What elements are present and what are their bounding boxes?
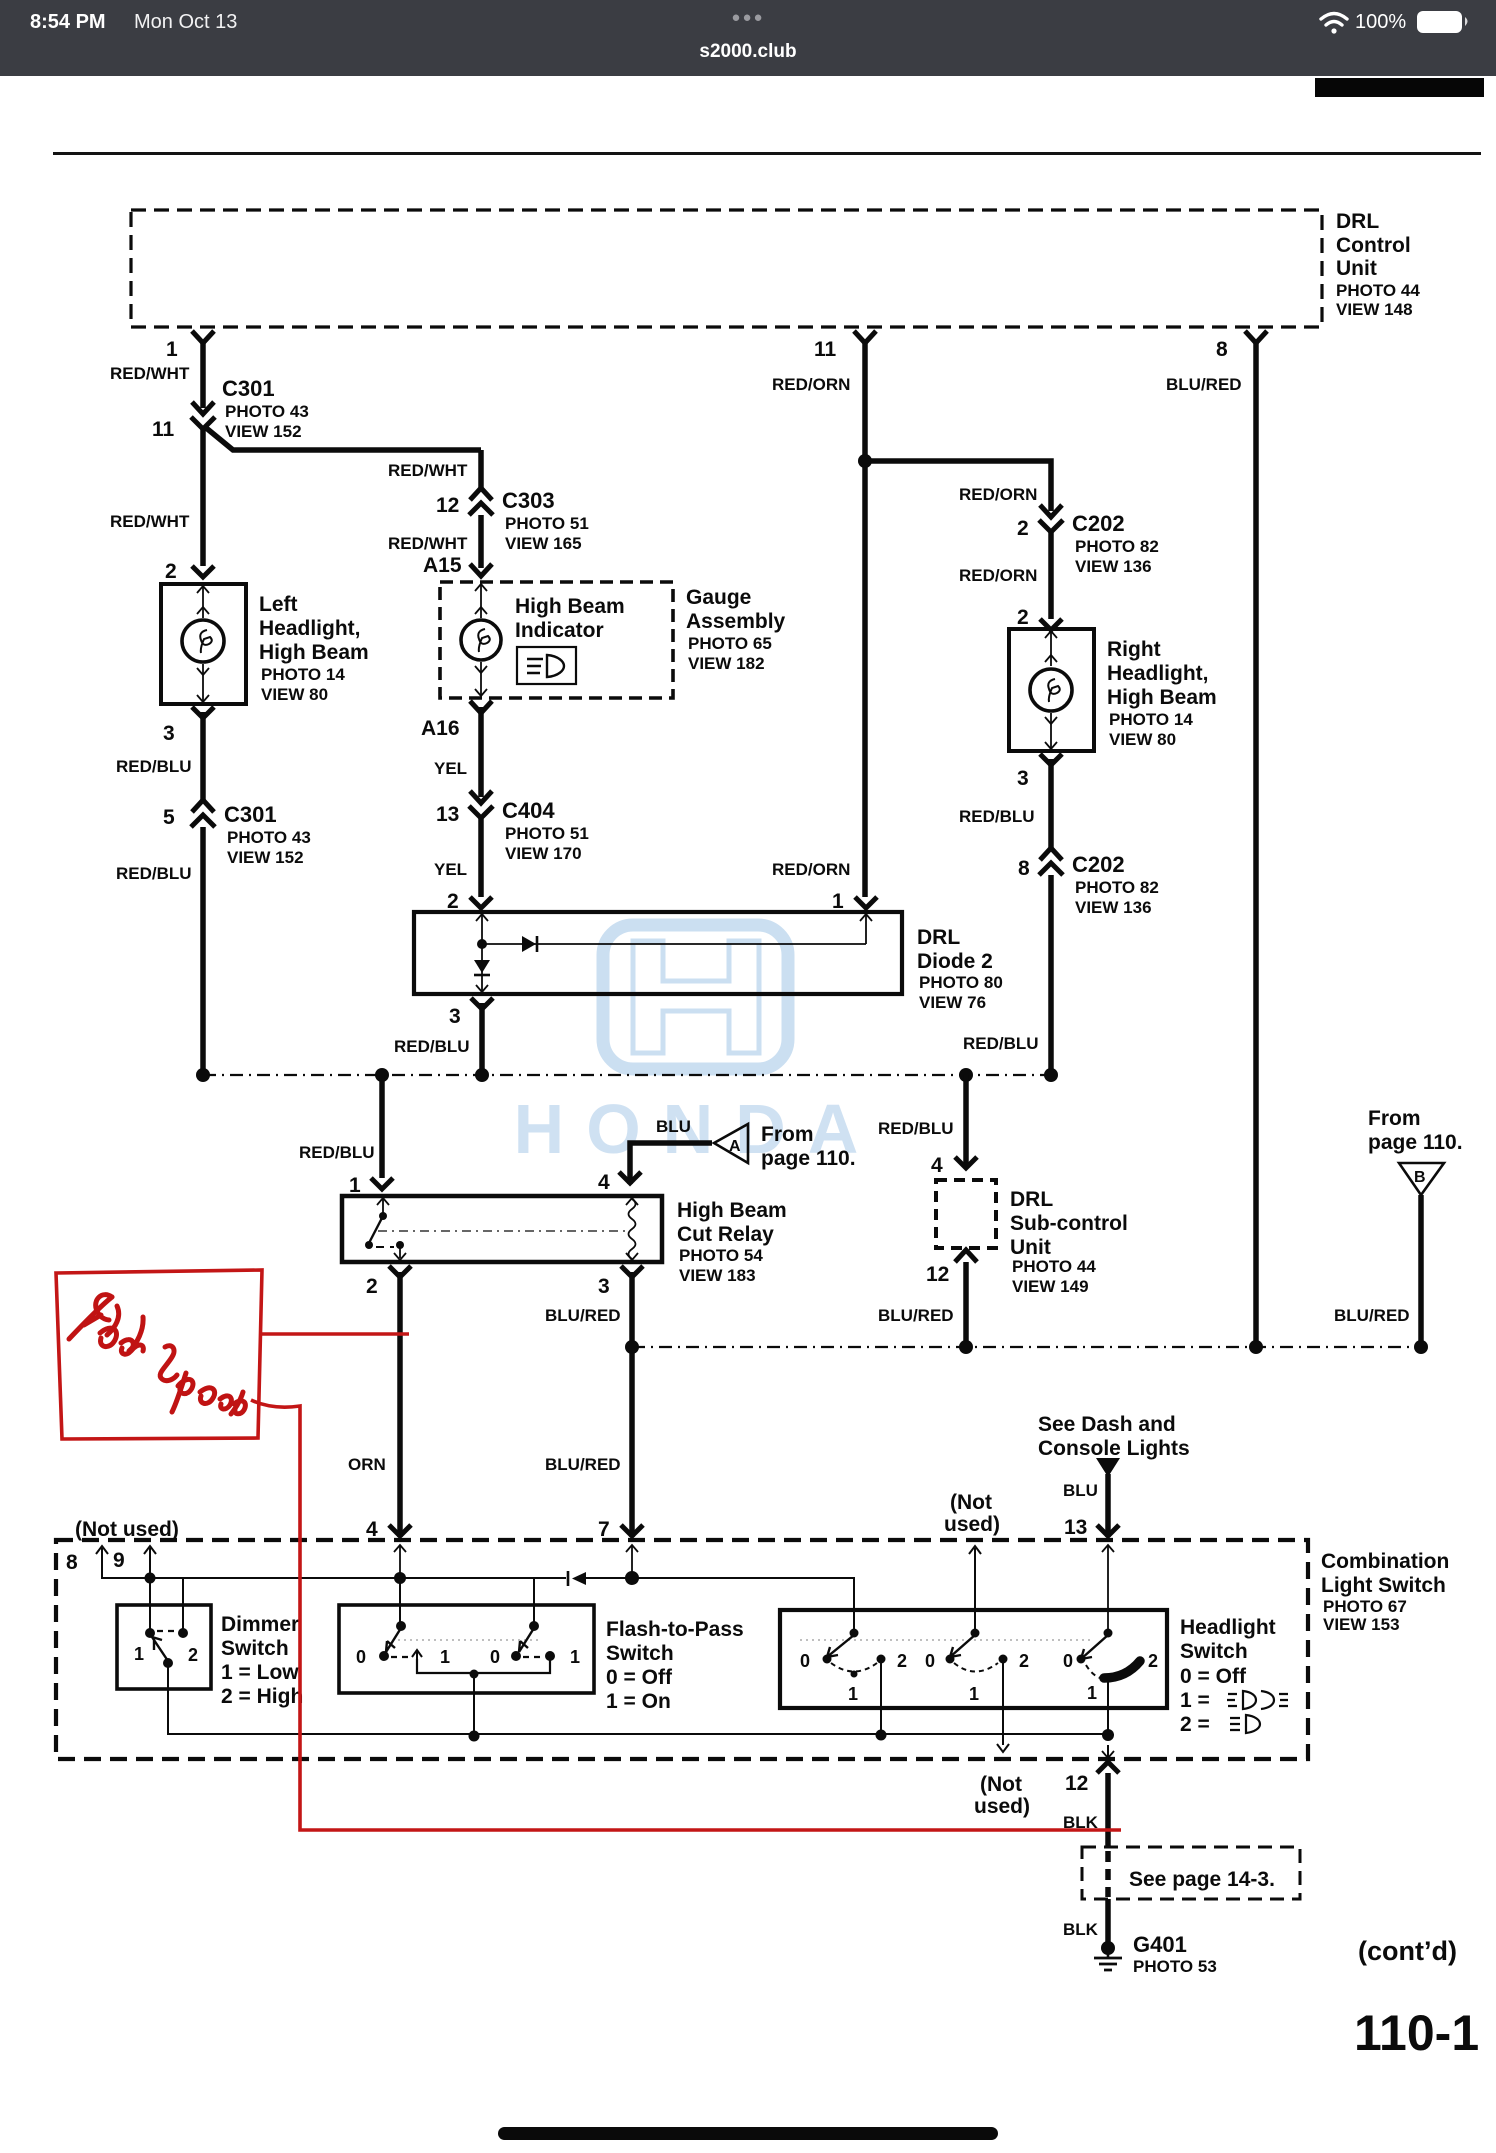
pin A16 of gauge assembly (421, 701, 492, 740)
wire RED/BLU bus to DRL sub-control pin 4 (878, 1075, 977, 1177)
headlight switch (780, 1610, 1276, 1752)
wire RED/WHT C303 to gauge assembly A15 (388, 515, 492, 577)
connector C301 pin 5 (163, 800, 311, 867)
internal wire upper rail (150, 1578, 854, 1633)
svg-text:PHOTO 44: PHOTO 44 (1336, 281, 1420, 300)
svg-text:VIEW 149: VIEW 149 (1012, 1277, 1089, 1296)
svg-text:High Beam: High Beam (515, 595, 625, 618)
svg-text:2: 2 (1019, 1651, 1029, 1671)
see dash and console lights feed (1038, 1413, 1190, 1539)
wire RED/BLU C301-5 down to bus (116, 827, 203, 1075)
junction node inside diode box (477, 939, 487, 949)
svg-text:RED/BLU: RED/BLU (299, 1143, 375, 1162)
svg-text:0 = Off: 0 = Off (606, 1666, 673, 1689)
wire BLU/RED relay pin3 to combination switch pin 7 (545, 1272, 632, 1537)
wifi icon (1321, 14, 1347, 34)
svg-text:PHOTO 14: PHOTO 14 (261, 665, 345, 684)
svg-text:BLU/RED: BLU/RED (545, 1455, 621, 1474)
svg-text:(Not: (Not (950, 1491, 992, 1514)
svg-text:12: 12 (1065, 1772, 1088, 1795)
svg-text:BLU/RED: BLU/RED (545, 1306, 621, 1325)
red handwriting flash to pass (69, 1295, 245, 1414)
pin 7 of combination switch (598, 1518, 643, 1578)
svg-text:●●●: ●●● (731, 9, 764, 26)
wire BLU/RED subcontrol pin12 to bus (878, 1262, 966, 1347)
svg-text:1: 1 (349, 1174, 361, 1197)
svg-text:C303: C303 (502, 488, 555, 513)
svg-text:12: 12 (926, 1263, 949, 1286)
page top rule (53, 152, 1481, 155)
svg-text:BLK: BLK (1063, 1920, 1099, 1939)
svg-text:8:54 PM: 8:54 PM (30, 11, 106, 33)
svg-text:Left: Left (259, 593, 298, 616)
svg-text:Combination: Combination (1321, 1550, 1449, 1573)
connector C202 pin 2 (1017, 505, 1159, 576)
svg-text:RED/ORN: RED/ORN (959, 566, 1037, 585)
svg-text:BLU/RED: BLU/RED (1334, 1306, 1410, 1325)
svg-text:3: 3 (1017, 767, 1029, 790)
svg-text:PHOTO 80: PHOTO 80 (919, 973, 1003, 992)
wire RED/ORN C202 to right headlight (959, 532, 1062, 630)
high beam cut relay (342, 1196, 787, 1285)
svg-text:0: 0 (925, 1651, 935, 1671)
svg-text:s2000.club: s2000.club (699, 41, 796, 62)
svg-text:3: 3 (598, 1275, 610, 1298)
svg-text:C301: C301 (222, 376, 275, 401)
wire RED/WHT pin1 to C301 (110, 343, 203, 408)
combination light switch box (56, 1540, 1449, 1759)
node rail pin8-9 (145, 1573, 156, 1584)
pins 8 and 9 arrows (66, 1546, 156, 1578)
svg-text:4: 4 (598, 1171, 610, 1194)
svg-text:8: 8 (1216, 338, 1228, 361)
connector triangle B from page 110 (1368, 1107, 1463, 1195)
svg-text:VIEW 153: VIEW 153 (1323, 1615, 1400, 1634)
svg-text:A16: A16 (421, 717, 460, 740)
wire RED/ORN into diode pin 1 (772, 860, 877, 913)
svg-text:VIEW 152: VIEW 152 (227, 848, 304, 867)
svg-text:2: 2 (447, 890, 459, 913)
svg-text:PHOTO 54: PHOTO 54 (679, 1246, 763, 1265)
flash-to-pass switch (339, 1605, 744, 1734)
svg-text:VIEW 80: VIEW 80 (1109, 730, 1176, 749)
svg-text:4: 4 (366, 1518, 378, 1541)
wire RED/BLU pin3 to C202-8 (959, 759, 1051, 848)
node bus subcontrol branch (959, 1068, 973, 1082)
diode in rail pointing left (568, 1571, 586, 1586)
wire branch from C301-11 to C303 column (205, 427, 481, 450)
svg-text:(cont’d): (cont’d) (1358, 1936, 1457, 1966)
svg-text:PHOTO 82: PHOTO 82 (1075, 878, 1159, 897)
svg-text:VIEW 80: VIEW 80 (261, 685, 328, 704)
svg-text:From: From (761, 1123, 814, 1146)
pin 13 of combination switch (1097, 1525, 1119, 1633)
svg-text:RED/WHT: RED/WHT (388, 534, 468, 553)
node bottom rail headlight (1102, 1729, 1114, 1741)
lower dashed bus (632, 1346, 1421, 1348)
svg-text:Switch: Switch (1180, 1640, 1248, 1663)
node lower bus pin8 (1249, 1340, 1263, 1354)
node rail pin7 (625, 1571, 639, 1585)
DRL Diode 2 (414, 912, 1003, 1012)
svg-text:0: 0 (490, 1647, 500, 1667)
svg-text:RED/BLU: RED/BLU (963, 1034, 1039, 1053)
wire BLK to ground (1063, 1899, 1108, 1944)
svg-text:11: 11 (814, 338, 837, 361)
pin 3 of relay (598, 1266, 643, 1298)
svg-text:0: 0 (356, 1647, 366, 1667)
node lower bus triangle B (1414, 1340, 1428, 1354)
svg-text:PHOTO 43: PHOTO 43 (227, 828, 311, 847)
svg-text:Right: Right (1107, 638, 1161, 661)
svg-text:0: 0 (800, 1651, 810, 1671)
node ftp bridge to bottom rail (469, 1731, 480, 1742)
svg-text:Dimmer: Dimmer (221, 1613, 299, 1636)
node bus relay branch (375, 1068, 389, 1082)
wire RED/BLU bus to relay pin 1 (299, 1075, 393, 1197)
svg-text:VIEW 165: VIEW 165 (505, 534, 582, 553)
svg-text:1: 1 (570, 1647, 580, 1667)
svg-text:Cut Relay: Cut Relay (677, 1223, 774, 1246)
svg-text:Gauge: Gauge (686, 586, 751, 609)
svg-text:B: B (1414, 1169, 1426, 1186)
svg-text:From: From (1368, 1107, 1421, 1130)
wire BLK pin12 down (1063, 1773, 1108, 1847)
svg-text:Sub-control: Sub-control (1010, 1212, 1128, 1235)
icon low beam (1227, 1691, 1288, 1709)
svg-text:Unit: Unit (1336, 257, 1377, 280)
svg-text:VIEW 136: VIEW 136 (1075, 557, 1152, 576)
red wire annotation path (251, 1400, 1121, 1830)
node bottom rail ftp (876, 1730, 887, 1741)
svg-text:BLU: BLU (1063, 1481, 1098, 1500)
svg-text:Unit: Unit (1010, 1236, 1051, 1259)
svg-text:1 =: 1 = (1180, 1689, 1210, 1712)
svg-text:Light Switch: Light Switch (1321, 1574, 1446, 1597)
svg-text:Diode 2: Diode 2 (917, 950, 993, 973)
svg-text:BLU/RED: BLU/RED (878, 1306, 954, 1325)
wire RED/BLU diode pin3 to bus (394, 1003, 482, 1075)
wire RED/BLU pin3 to C301-5 (116, 712, 203, 800)
svg-text:VIEW 183: VIEW 183 (679, 1266, 756, 1285)
node bus diode3 (475, 1068, 489, 1082)
DRL Control Unit (131, 210, 1420, 327)
svg-text:Switch: Switch (606, 1642, 674, 1665)
svg-text:2: 2 (165, 560, 177, 583)
svg-text:See Dash and: See Dash and (1038, 1413, 1176, 1436)
junction node RED/ORN branch (858, 454, 872, 468)
svg-text:PHOTO 65: PHOTO 65 (688, 634, 772, 653)
honda watermark H logo (603, 925, 788, 1069)
high beam indicator bulb (461, 584, 625, 696)
svg-text:100%: 100% (1355, 11, 1406, 33)
label not used mid (944, 1491, 1000, 1633)
svg-text:VIEW 76: VIEW 76 (919, 993, 986, 1012)
svg-text:Flash-to-Pass: Flash-to-Pass (606, 1618, 744, 1641)
svg-text:RED/ORN: RED/ORN (959, 485, 1037, 504)
svg-text:High Beam: High Beam (677, 1199, 787, 1222)
svg-text:0: 0 (1063, 1651, 1073, 1671)
svg-text:Switch: Switch (221, 1637, 289, 1660)
svg-text:RED/BLU: RED/BLU (959, 807, 1035, 826)
connector C301 pin 11 (152, 376, 309, 441)
svg-text:DRL: DRL (1010, 1188, 1053, 1211)
svg-text:Assembly: Assembly (686, 610, 786, 633)
svg-text:RED/WHT: RED/WHT (110, 512, 190, 531)
pin 4 of combination switch (366, 1518, 411, 1578)
svg-text:PHOTO 53: PHOTO 53 (1133, 1957, 1217, 1976)
svg-text:page 110.: page 110. (1368, 1131, 1463, 1154)
wire branch to C202 column (865, 461, 1051, 511)
pin 3 of right headlight (1017, 754, 1062, 790)
upper dashed bus (203, 1074, 1051, 1076)
svg-text:See page 14-3.: See page 14-3. (1129, 1868, 1275, 1891)
red annotation box flash to pass (56, 1270, 262, 1439)
ground G401 (1094, 1932, 1217, 1976)
svg-text:1 = On: 1 = On (606, 1690, 671, 1713)
svg-text:used): used) (944, 1513, 1000, 1536)
svg-text:used): used) (974, 1795, 1030, 1818)
svg-text:RED/BLU: RED/BLU (116, 864, 192, 883)
svg-text:1: 1 (134, 1644, 144, 1664)
node lower bus subcontrol (959, 1340, 973, 1354)
svg-text:1: 1 (166, 338, 178, 361)
svg-text:DRL: DRL (917, 926, 960, 949)
svg-text:Indicator: Indicator (515, 619, 604, 642)
svg-text:RED/ORN: RED/ORN (772, 375, 850, 394)
node bus right (1044, 1068, 1058, 1082)
svg-text:High Beam: High Beam (1107, 686, 1217, 709)
svg-text:BLU: BLU (656, 1117, 691, 1136)
svg-text:C301: C301 (224, 802, 277, 827)
pin 3 of DRL diode (449, 998, 493, 1028)
svg-text:1 = Low: 1 = Low (221, 1661, 299, 1684)
svg-text:YEL: YEL (434, 759, 467, 778)
svg-text:C202: C202 (1072, 852, 1125, 877)
svg-text:1: 1 (848, 1684, 858, 1704)
DRL Sub-control Unit (936, 1180, 1128, 1296)
see page 14-3 box (1082, 1847, 1300, 1899)
connector triangle A from page 110 (714, 1123, 856, 1170)
high beam icon (517, 647, 576, 684)
right headlight, high beam (1009, 629, 1217, 751)
svg-text:(Not used): (Not used) (75, 1518, 179, 1541)
red leader line to pin2 wire (262, 1332, 409, 1336)
svg-text:PHOTO 51: PHOTO 51 (505, 824, 589, 843)
svg-text:PHOTO 51: PHOTO 51 (505, 514, 589, 533)
pin 2 of relay (366, 1266, 411, 1298)
svg-text:1: 1 (969, 1684, 979, 1704)
svg-text:(Not: (Not (980, 1773, 1022, 1796)
svg-text:7: 7 (598, 1518, 610, 1541)
wire pin4 through rail to switch arm (399, 1578, 401, 1625)
svg-text:3: 3 (449, 1005, 461, 1028)
svg-text:1: 1 (440, 1647, 450, 1667)
svg-text:11: 11 (152, 418, 175, 441)
svg-text:PHOTO 67: PHOTO 67 (1323, 1597, 1407, 1616)
svg-text:12: 12 (436, 494, 459, 517)
svg-text:13: 13 (436, 803, 459, 826)
wire RED/BLU C202-8 to bus (963, 875, 1051, 1075)
svg-text:RED/BLU: RED/BLU (116, 757, 192, 776)
svg-text:8: 8 (1018, 857, 1030, 880)
svg-text:YEL: YEL (434, 860, 467, 879)
svg-text:A15: A15 (423, 554, 462, 577)
wire RED/WHT branch down to C303 (388, 450, 481, 488)
pin 1 of DRL control unit (166, 331, 214, 361)
svg-text:RED/ORN: RED/ORN (772, 860, 850, 879)
diode D-down (474, 960, 490, 975)
connector C404 pin 13 (436, 791, 589, 863)
svg-text:DRL: DRL (1336, 210, 1379, 233)
svg-text:RED/BLU: RED/BLU (878, 1119, 954, 1138)
wire ORN relay pin2 to combination switch pin 4 (348, 1272, 400, 1537)
svg-text:1: 1 (1087, 1683, 1097, 1703)
svg-text:5: 5 (163, 806, 175, 829)
svg-text:3: 3 (163, 722, 175, 745)
svg-text:VIEW 148: VIEW 148 (1336, 300, 1413, 319)
svg-text:2: 2 (188, 1645, 198, 1665)
dimmer switch (117, 1605, 303, 1708)
svg-text:PHOTO 44: PHOTO 44 (1012, 1257, 1096, 1276)
svg-text:RED/WHT: RED/WHT (388, 461, 468, 480)
svg-text:Mon Oct 13: Mon Oct 13 (134, 11, 237, 33)
pin 12 of DRL sub-control (926, 1250, 977, 1286)
svg-text:BLU/RED: BLU/RED (1166, 375, 1242, 394)
svg-text:1: 1 (832, 890, 844, 913)
battery icon (1417, 11, 1468, 33)
node rail pin4 (394, 1572, 406, 1584)
svg-text:2: 2 (1148, 1651, 1158, 1671)
pin 3 of left headlight (163, 707, 214, 745)
svg-text:page 110.: page 110. (761, 1147, 856, 1170)
svg-text:PHOTO 14: PHOTO 14 (1109, 710, 1193, 729)
svg-text:VIEW 170: VIEW 170 (505, 844, 582, 863)
svg-text:2: 2 (366, 1275, 378, 1298)
wire YEL A16 to C404 (434, 707, 481, 797)
wire BLU/RED triangle B to bus (1334, 1195, 1421, 1347)
svg-text:VIEW 182: VIEW 182 (688, 654, 765, 673)
left headlight, high beam (161, 584, 369, 704)
gauge assembly box (440, 582, 786, 698)
svg-text:RED/WHT: RED/WHT (110, 364, 190, 383)
svg-text:Headlight: Headlight (1180, 1616, 1276, 1639)
wire BLU/RED pin8 down to lower bus (1166, 343, 1256, 1347)
wire RED/ORN pin11 down with branch (772, 343, 865, 897)
svg-text:2: 2 (1017, 517, 1029, 540)
node bus left (196, 1068, 210, 1082)
svg-text:13: 13 (1064, 1516, 1087, 1539)
svg-text:2: 2 (897, 1651, 907, 1671)
pin 12 of combination switch (1065, 1745, 1119, 1795)
svg-text:110-1: 110-1 (1354, 2005, 1479, 2061)
connector C202 pin 8 (1018, 848, 1159, 917)
svg-text:G401: G401 (1133, 1932, 1187, 1957)
svg-text:2: 2 (1017, 606, 1029, 629)
svg-text:Control: Control (1336, 234, 1411, 257)
svg-text:High Beam: High Beam (259, 641, 369, 664)
svg-text:Headlight,: Headlight, (1107, 662, 1209, 685)
svg-text:C202: C202 (1072, 511, 1125, 536)
iOS status bar (0, 0, 1496, 76)
svg-text:2 =: 2 = (1180, 1713, 1210, 1736)
svg-text:0 = Off: 0 = Off (1180, 1665, 1247, 1688)
svg-text:PHOTO 82: PHOTO 82 (1075, 537, 1159, 556)
label not used bottom (974, 1773, 1030, 1818)
home indicator bar (498, 2127, 998, 2140)
connector C303 pin 12 (436, 488, 589, 553)
svg-text:RED/BLU: RED/BLU (394, 1037, 470, 1056)
svg-text:8: 8 (66, 1551, 78, 1574)
svg-text:C404: C404 (502, 798, 555, 823)
svg-text:A: A (729, 1138, 741, 1155)
svg-text:VIEW 152: VIEW 152 (225, 422, 302, 441)
svg-text:PHOTO 43: PHOTO 43 (225, 402, 309, 421)
pin 8 of DRL control unit (1216, 331, 1267, 361)
wire RED/WHT down to left headlight (110, 429, 214, 583)
icon high beam (1230, 1715, 1260, 1733)
svg-text:4: 4 (931, 1154, 943, 1177)
wire BLU relay pin 4 to triangle A (598, 1117, 712, 1194)
wire dimmer to bottom rail (168, 1667, 1108, 1734)
wire YEL C404 to diode pin 2 (434, 818, 492, 913)
svg-text:VIEW 136: VIEW 136 (1075, 898, 1152, 917)
page header partial black box (1315, 78, 1484, 97)
node lower bus relay3 (625, 1340, 639, 1354)
pin 11 of DRL control unit (814, 331, 876, 361)
svg-text:9: 9 (113, 1549, 125, 1572)
svg-text:Headlight,: Headlight, (259, 617, 361, 640)
svg-text:2 = High: 2 = High (221, 1685, 303, 1708)
svg-text:ORN: ORN (348, 1455, 386, 1474)
svg-text:Console Lights: Console Lights (1038, 1437, 1190, 1460)
diode D-right (522, 936, 537, 952)
